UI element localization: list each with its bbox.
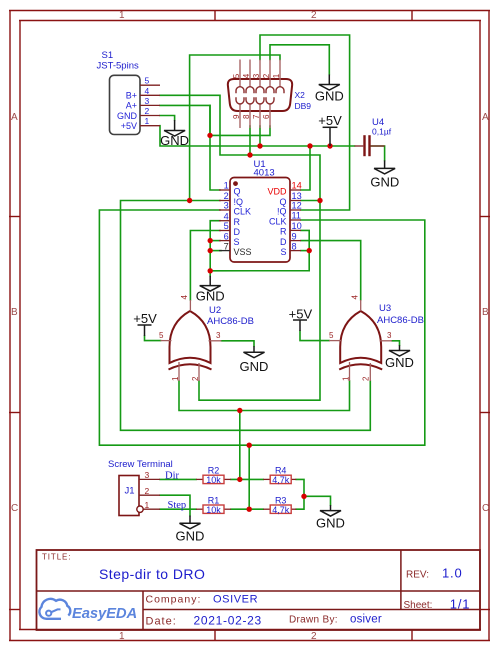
svg-text:3: 3 xyxy=(216,331,221,340)
svg-text:B+: B+ xyxy=(126,91,137,101)
svg-text:3: 3 xyxy=(252,73,261,78)
svg-text:1/1: 1/1 xyxy=(450,597,470,612)
svg-text:6: 6 xyxy=(224,231,229,241)
svg-text:GND: GND xyxy=(385,355,414,370)
svg-text:AHC86-DB: AHC86-DB xyxy=(207,316,254,327)
svg-text:EasyEDA: EasyEDA xyxy=(72,606,137,622)
svg-text:2: 2 xyxy=(311,631,317,642)
svg-text:4: 4 xyxy=(242,73,251,78)
svg-text:Screw Terminal: Screw Terminal xyxy=(108,459,173,470)
svg-text:3: 3 xyxy=(224,201,229,211)
svg-text:1: 1 xyxy=(119,10,125,21)
svg-text:3: 3 xyxy=(145,470,150,480)
svg-text:5: 5 xyxy=(145,76,150,86)
svg-text:4: 4 xyxy=(224,211,229,221)
svg-text:S: S xyxy=(280,247,286,257)
svg-text:U2: U2 xyxy=(209,305,221,316)
svg-text:4: 4 xyxy=(351,295,360,300)
svg-text:!Q: !Q xyxy=(277,206,287,216)
svg-text:JST-5pins: JST-5pins xyxy=(97,61,139,72)
svg-text:1: 1 xyxy=(145,500,150,510)
svg-text:0,1µf: 0,1µf xyxy=(372,127,392,137)
svg-text:GND: GND xyxy=(160,133,189,148)
svg-text:S1: S1 xyxy=(102,50,114,61)
svg-text:5: 5 xyxy=(224,221,229,231)
svg-text:VDD: VDD xyxy=(267,186,287,196)
svg-text:3: 3 xyxy=(145,96,150,106)
svg-text:Q: Q xyxy=(279,197,286,207)
svg-text:GND: GND xyxy=(315,89,344,104)
svg-text:+5V: +5V xyxy=(289,306,313,321)
svg-text:1: 1 xyxy=(171,376,180,381)
svg-text:DB9: DB9 xyxy=(295,101,312,111)
svg-text:+5V: +5V xyxy=(133,311,157,326)
svg-text:A: A xyxy=(482,112,489,123)
svg-text:CLK: CLK xyxy=(269,216,287,226)
svg-text:9: 9 xyxy=(292,231,297,241)
svg-text:4013: 4013 xyxy=(254,167,275,178)
svg-text:GND: GND xyxy=(117,111,138,121)
svg-text:GND: GND xyxy=(316,516,345,531)
svg-text:6: 6 xyxy=(262,114,271,119)
svg-text:10: 10 xyxy=(292,221,302,231)
svg-text:R: R xyxy=(234,217,241,227)
svg-text:Drawn By:: Drawn By: xyxy=(289,615,338,626)
svg-text:2: 2 xyxy=(145,486,150,496)
svg-text:10k: 10k xyxy=(206,475,221,485)
svg-text:R3: R3 xyxy=(275,495,287,505)
svg-text:J1: J1 xyxy=(125,485,135,496)
svg-text:11: 11 xyxy=(292,211,302,221)
svg-text:+5V: +5V xyxy=(121,121,137,131)
svg-text:C: C xyxy=(11,503,18,514)
svg-text:D: D xyxy=(234,227,241,237)
svg-text:8: 8 xyxy=(292,241,297,251)
svg-text:Company:: Company: xyxy=(146,594,202,606)
svg-text:Sheet:: Sheet: xyxy=(404,600,433,611)
svg-text:D: D xyxy=(280,237,287,247)
svg-text:Step: Step xyxy=(168,500,187,511)
svg-text:OSIVER: OSIVER xyxy=(213,594,258,606)
svg-text:Dir: Dir xyxy=(165,470,180,481)
svg-text:VSS: VSS xyxy=(234,247,252,257)
svg-text:2: 2 xyxy=(362,376,371,381)
svg-text:2: 2 xyxy=(262,73,271,78)
svg-text:2: 2 xyxy=(191,376,200,381)
svg-text:GND: GND xyxy=(240,359,269,374)
svg-text:R1: R1 xyxy=(208,495,220,505)
svg-text:!Q: !Q xyxy=(234,197,244,207)
svg-text:+5V: +5V xyxy=(318,113,342,128)
svg-text:B: B xyxy=(482,307,489,318)
svg-text:TITLE:: TITLE: xyxy=(42,553,71,562)
svg-text:GND: GND xyxy=(176,529,205,544)
svg-text:13: 13 xyxy=(292,191,302,201)
svg-text:10k: 10k xyxy=(206,505,221,515)
svg-text:Q: Q xyxy=(234,186,241,196)
svg-text:5: 5 xyxy=(159,331,164,340)
svg-text:9: 9 xyxy=(232,114,241,119)
svg-text:2021-02-23: 2021-02-23 xyxy=(194,614,262,628)
svg-text:5: 5 xyxy=(232,73,241,78)
svg-text:GND: GND xyxy=(370,175,399,190)
svg-text:4: 4 xyxy=(145,86,150,96)
svg-text:12: 12 xyxy=(292,201,302,211)
svg-text:R4: R4 xyxy=(275,466,287,476)
svg-text:7: 7 xyxy=(252,114,261,119)
svg-text:1.0: 1.0 xyxy=(442,566,462,581)
svg-text:C: C xyxy=(482,503,489,514)
svg-text:14: 14 xyxy=(292,181,302,191)
svg-text:REV:: REV: xyxy=(406,570,429,581)
svg-text:osiver: osiver xyxy=(350,614,382,626)
svg-text:U3: U3 xyxy=(379,303,391,314)
svg-text:1: 1 xyxy=(119,631,125,642)
svg-text:1: 1 xyxy=(342,376,351,381)
svg-text:X2: X2 xyxy=(295,90,306,100)
svg-text:2: 2 xyxy=(311,10,317,21)
svg-text:3: 3 xyxy=(387,331,392,340)
svg-text:4,7k: 4,7k xyxy=(272,505,290,515)
svg-text:4,7k: 4,7k xyxy=(272,475,290,485)
svg-text:B: B xyxy=(11,307,18,318)
svg-text:1: 1 xyxy=(272,73,281,78)
svg-text:2: 2 xyxy=(145,106,150,116)
svg-text:CLK: CLK xyxy=(234,206,252,216)
svg-text:1: 1 xyxy=(145,116,150,126)
svg-text:Step-dir to DRO: Step-dir to DRO xyxy=(99,566,205,582)
svg-text:A: A xyxy=(11,112,18,123)
svg-text:A+: A+ xyxy=(126,101,137,111)
svg-text:R: R xyxy=(280,227,287,237)
svg-text:Date:: Date: xyxy=(146,616,177,628)
svg-text:2: 2 xyxy=(224,191,229,201)
svg-text:1: 1 xyxy=(224,181,229,191)
svg-text:GND: GND xyxy=(196,289,225,304)
svg-text:4: 4 xyxy=(180,295,189,300)
svg-text:AHC86-DB: AHC86-DB xyxy=(377,315,424,326)
svg-text:5: 5 xyxy=(329,331,334,340)
svg-text:7: 7 xyxy=(224,241,229,251)
svg-text:8: 8 xyxy=(242,114,251,119)
svg-text:R2: R2 xyxy=(208,466,220,476)
svg-text:S: S xyxy=(234,237,240,247)
